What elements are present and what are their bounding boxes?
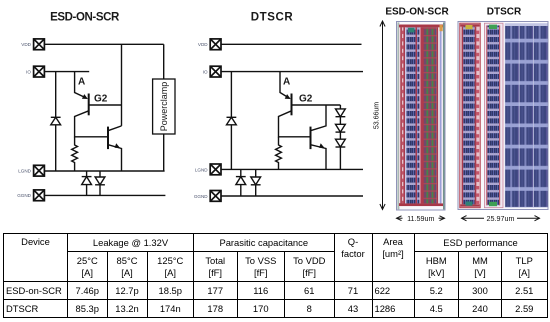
transistor Q4 NPN base bar (S2) — [310, 127, 312, 150]
arrow PNP emitter (S1) — [82, 94, 88, 99]
svg-text:GGND: GGND — [194, 194, 208, 199]
diode D9 LGND-to-GGND (S2) — [251, 169, 261, 196]
wire PNP collector to NPN base (S1) — [75, 111, 108, 137]
diode D6 trigger (S2) — [336, 124, 346, 139]
wire IO diode branch (S1) — [55, 72, 57, 117]
wire VDD rail (S2) — [221, 43, 362, 45]
wire G2 base line (S2) — [292, 104, 341, 106]
layout photo ESD-ON-SCR — [397, 22, 446, 211]
svg-text:IO: IO — [26, 70, 31, 75]
svg-text:LGND: LGND — [18, 169, 31, 174]
resistor R1 (S1) — [72, 137, 78, 171]
wire powerclamp bottom (S1) — [163, 134, 165, 171]
pad IO (S1) — [34, 66, 45, 77]
arrow NPN emitter (S1) — [115, 143, 121, 148]
svg-text:53.66um: 53.66um — [374, 102, 381, 129]
svg-text:A: A — [78, 77, 85, 88]
wire GGND rail (S2) — [221, 195, 363, 197]
diode D8 GGND-to-LGND (S2) — [236, 169, 246, 196]
wire NPN emitter (S2) — [311, 145, 327, 170]
svg-text:A: A — [283, 77, 290, 88]
diode D2 GGND-to-LGND (S1) — [82, 171, 92, 195]
wire PNP emitter elbow (S2) — [280, 72, 289, 98]
svg-text:11.59um: 11.59um — [407, 214, 434, 223]
arrow NPN emitter (S2) — [319, 143, 325, 148]
layout photo DTSCR — [458, 22, 548, 210]
pad GGND (S2) — [210, 191, 221, 202]
wire powerclamp top (S1) — [163, 44, 165, 79]
diode D1 IO-LGND (S1) — [51, 117, 61, 171]
results table — [3, 233, 548, 318]
pad LGND (S2) — [210, 164, 221, 175]
svg-text:GGND: GGND — [17, 193, 31, 198]
pad VDD (S1) — [34, 39, 45, 50]
svg-text:G2: G2 — [94, 94, 108, 105]
wire NPN collector (S1) — [108, 126, 122, 131]
wire PNP emitter elbow (S1) — [75, 72, 87, 98]
wire LGND rail (S2) — [221, 168, 363, 170]
svg-text:LGND: LGND — [195, 167, 208, 172]
wire LGND rail (S1) — [44, 170, 164, 172]
wire IO diode branch (S2) — [230, 72, 232, 117]
dimension arrow 25.97um — [462, 216, 540, 221]
svg-text:Powerclamp: Powerclamp — [159, 82, 169, 132]
diode D7 trigger (S2) — [336, 139, 346, 169]
svg-text:25.97um: 25.97um — [487, 214, 515, 223]
svg-text:G2: G2 — [299, 94, 313, 105]
diode D4 IO-LGND (S2) — [227, 117, 237, 169]
pad LGND (S1) — [34, 165, 45, 176]
wire NPN emitter (S1) — [108, 145, 122, 171]
transistor Q3 PNP base bar (S2) — [291, 94, 293, 116]
diode D5 trigger (S2) — [336, 109, 346, 124]
svg-text:VDD: VDD — [21, 42, 31, 47]
transistor Q1 PNP base bar (S1) — [88, 94, 90, 116]
wire VDD rail (S1) — [44, 43, 163, 45]
diode D3 LGND-to-GGND (S1) — [95, 171, 105, 195]
wire IO rail (S2) — [221, 71, 363, 73]
wire GGND rail (S1) — [44, 194, 165, 196]
pad IO (S2) — [210, 66, 221, 77]
wire IO rail (S1) — [44, 71, 89, 73]
svg-text:DTSCR: DTSCR — [251, 11, 294, 23]
pad VDD (S2) — [210, 39, 221, 50]
powerclamp U1 box (S1) — [153, 79, 175, 134]
dimension arrow 11.59um — [397, 216, 445, 221]
resistor R2 (S2) — [276, 137, 282, 170]
wire G2 base line (S1) — [89, 104, 122, 106]
wire VDD drop to G2 / NPN collector (S1) — [121, 44, 123, 126]
dimension arrow 53.66um — [380, 21, 385, 210]
svg-text:VDD: VDD — [198, 42, 208, 47]
wire PNP collector to NPN base (S2) — [279, 111, 311, 137]
svg-text:ESD-ON-SCR: ESD-ON-SCR — [50, 11, 120, 23]
svg-text:IO: IO — [203, 70, 208, 75]
transistor Q2 NPN base bar (S1) — [107, 127, 109, 150]
pad GGND (S1) — [34, 190, 45, 201]
svg-text:ESD-ON-SCR: ESD-ON-SCR — [385, 7, 449, 18]
wire G2 to trigger chain (S2) — [339, 105, 341, 109]
svg-text:DTSCR: DTSCR — [487, 7, 522, 18]
wire NPN collector (S2) — [311, 105, 327, 131]
arrow PNP emitter (S2) — [285, 94, 291, 99]
